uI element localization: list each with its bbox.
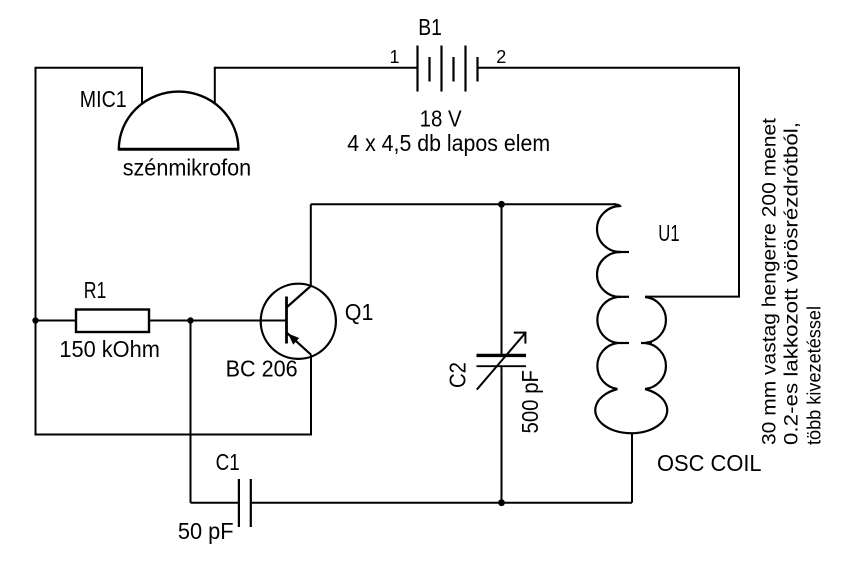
node junction dot base bbox=[187, 317, 193, 323]
coil U1 loop 5 bottom arc bbox=[595, 389, 667, 433]
transistor Q1 base bar bbox=[285, 297, 288, 344]
battery B1 plate short 3 bbox=[476, 57, 478, 82]
svg-text:30 mm vastag hengerre 200 mene: 30 mm vastag hengerre 200 menet bbox=[759, 117, 781, 445]
transistor Q1 emitter arrow bbox=[288, 334, 299, 345]
battery B1 plate long 1 bbox=[416, 46, 418, 92]
wire right rail bbox=[738, 67, 740, 297]
transistor Q1 collector diagonal bbox=[287, 286, 311, 308]
wire bottom rail C1 to coil bbox=[251, 502, 632, 504]
microphone MIC1 baseline bbox=[118, 148, 240, 151]
battery B1 plate short 2 bbox=[452, 57, 454, 82]
resistor R1 right lead bbox=[149, 320, 191, 322]
svg-text:C1: C1 bbox=[216, 449, 240, 475]
wire left rail bbox=[35, 68, 37, 435]
svg-text:több kivezetéssel: több kivezetéssel bbox=[803, 306, 825, 445]
microphone MIC1 dome bbox=[119, 92, 239, 150]
wire top rail to coil bbox=[311, 203, 616, 205]
svg-text:50 pF: 50 pF bbox=[178, 518, 234, 544]
svg-text:R1: R1 bbox=[84, 277, 107, 303]
battery B1 plate short 1 bbox=[428, 57, 430, 82]
capacitor C2 top lead bbox=[501, 204, 503, 354]
wire C1 left lead bbox=[191, 502, 240, 504]
svg-text:150 kOhm: 150 kOhm bbox=[59, 336, 159, 362]
svg-text:szénmikrofon: szénmikrofon bbox=[123, 154, 252, 180]
wire bottom emitter horizontal bbox=[35, 434, 313, 436]
node junction dot left rail bbox=[32, 317, 38, 323]
capacitor C1 right plate bbox=[250, 479, 252, 527]
transistor Q1 emitter diagonal bbox=[287, 333, 311, 355]
resistor R1 left lead bbox=[36, 320, 77, 322]
coil U1 cusp dash 2 bbox=[614, 296, 630, 298]
coil U1 loop 4 right arc bbox=[645, 343, 666, 389]
wire emitter down bbox=[310, 355, 312, 435]
svg-text:2: 2 bbox=[496, 47, 506, 67]
capacitor C2 bottom lead bbox=[501, 367, 503, 503]
svg-text:MIC1: MIC1 bbox=[80, 86, 127, 112]
wire MIC1 right lead bbox=[214, 67, 216, 104]
capacitor C2 arrow diagonal bbox=[477, 333, 525, 389]
capacitor C2 arrowhead horizontal bbox=[514, 332, 527, 334]
wire coil bottom down bbox=[631, 434, 633, 503]
coil U1 loop 3 right arc bbox=[645, 297, 666, 343]
svg-text:4 x 4,5 db lapos elem: 4 x 4,5 db lapos elem bbox=[347, 130, 550, 156]
coil U1 cusp dash 3 bbox=[614, 342, 630, 344]
capacitor C2 top plate bbox=[477, 354, 527, 357]
svg-text:B1: B1 bbox=[418, 14, 442, 40]
svg-text:OSC COIL: OSC COIL bbox=[657, 450, 762, 476]
svg-text:C2: C2 bbox=[445, 362, 471, 388]
battery B1 plate long 3 bbox=[464, 46, 466, 92]
wire mic to battery bbox=[215, 67, 418, 69]
resistor R1 body bbox=[76, 310, 149, 333]
battery B1 plate long 2 bbox=[440, 46, 442, 92]
wire base junction down to C1 bbox=[190, 321, 192, 503]
wire collector up bbox=[310, 204, 312, 286]
svg-text:U1: U1 bbox=[658, 220, 679, 246]
capacitor C1 left plate bbox=[238, 479, 240, 527]
coil U1 cusp dash 4 bbox=[641, 342, 652, 344]
node junction dot top rail bbox=[498, 201, 505, 208]
coil U1 loop 4 left arc bbox=[597, 343, 617, 389]
transistor Q1 circle bbox=[261, 284, 336, 359]
svg-text:500 pF: 500 pF bbox=[517, 370, 543, 434]
wire battery to right rail bbox=[478, 67, 740, 69]
wire top-left horizontal bbox=[35, 67, 143, 69]
wire base bbox=[191, 320, 286, 322]
node junction dot bottom rail bbox=[498, 499, 505, 506]
capacitor C2 arrowhead vertical bbox=[524, 332, 526, 344]
capacitor C2 bottom plate bbox=[477, 365, 527, 367]
coil U1 cusp dash 1 bbox=[616, 251, 630, 253]
wire coil tap bbox=[645, 296, 740, 298]
svg-text:1: 1 bbox=[389, 47, 399, 67]
svg-text:Q1: Q1 bbox=[345, 299, 374, 325]
coil U1 upper loop 1 bbox=[597, 206, 621, 252]
wire MIC1 left lead bbox=[141, 67, 143, 105]
svg-text:0.2-es lakkozott vörösrézdrótb: 0.2-es lakkozott vörösrézdrótból, bbox=[781, 122, 803, 445]
coil U1 entry curve bbox=[614, 204, 621, 207]
coil U1 upper loop 2 bbox=[597, 252, 621, 297]
coil U1 loop 3 left arc bbox=[597, 297, 617, 343]
svg-text:BC 206: BC 206 bbox=[226, 356, 298, 382]
svg-text:18 V: 18 V bbox=[420, 106, 462, 132]
